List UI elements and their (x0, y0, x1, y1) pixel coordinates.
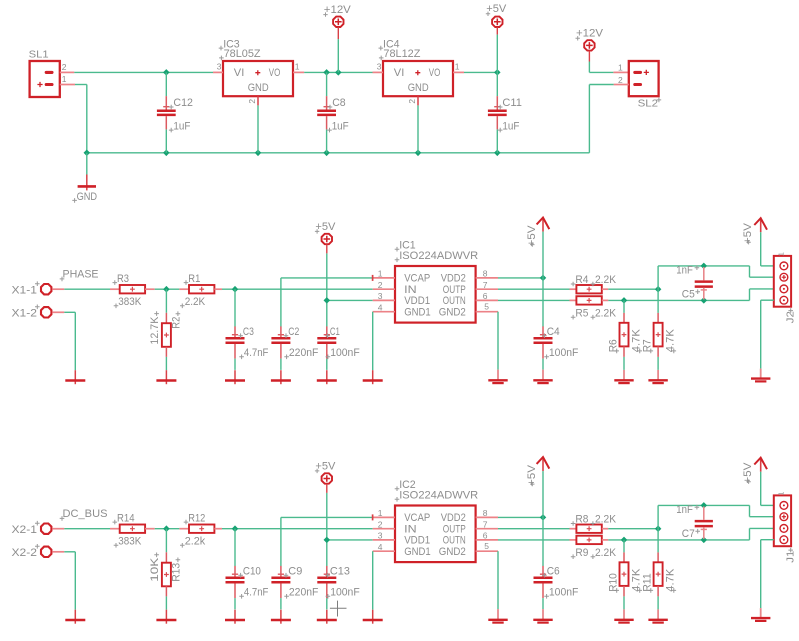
svg-text:78L05Z: 78L05Z (224, 48, 261, 60)
svg-text:VDD1: VDD1 (404, 535, 430, 547)
junction (701, 502, 708, 509)
svg-text:R1: R1 (188, 273, 200, 285)
pin IC3 GND stub (257, 96, 259, 105)
wire input low to gnd (64, 552, 75, 610)
wire divider (165, 289, 167, 313)
capacitor C1 100nF (317, 326, 360, 370)
svg-text:R14: R14 (117, 512, 135, 524)
ground (533, 370, 552, 384)
junction (232, 525, 239, 532)
svg-text:5: 5 (484, 541, 489, 551)
ground (225, 610, 245, 624)
svg-text:5: 5 (484, 301, 489, 311)
junction (335, 69, 342, 76)
net label PHASE (60, 269, 99, 282)
wire OUTP out (608, 288, 658, 290)
svg-text:2: 2 (618, 75, 623, 85)
wire +5V to J pin1 (761, 232, 774, 266)
svg-text:R5: R5 (575, 307, 588, 319)
ground (271, 370, 291, 384)
supply +5V (315, 221, 336, 254)
junction (655, 286, 662, 293)
junction (84, 150, 91, 157)
svg-text:6: 6 (483, 531, 488, 541)
junction (540, 514, 547, 521)
svg-text:R2: R2 (171, 317, 183, 329)
junction (232, 286, 239, 293)
wire GND1 down (372, 312, 374, 371)
wire input (64, 528, 110, 530)
capacitor C2 220nF (271, 326, 318, 370)
svg-text:VI: VI (394, 67, 405, 79)
supply +12V (576, 28, 604, 62)
svg-text:VCAP: VCAP (404, 273, 430, 285)
svg-text:C11: C11 (502, 97, 522, 109)
wire GND2 down (497, 551, 499, 609)
resistor R10 4.7K (607, 552, 642, 596)
ground (363, 370, 383, 384)
resistor R5 2.2K (570, 296, 617, 319)
resistor R6 4.7K (607, 313, 642, 357)
capacitor C10 4.7nF (226, 529, 269, 610)
svg-text:R4: R4 (575, 274, 588, 286)
resistor R4 2.2K (570, 274, 617, 293)
svg-text:R9: R9 (575, 547, 588, 559)
isolation amp IC2 ISO224ADWVR (395, 479, 479, 562)
svg-text:2: 2 (378, 519, 383, 529)
svg-text:1: 1 (295, 62, 300, 72)
pin X1-2 (12, 305, 65, 320)
wire (657, 596, 659, 609)
svg-text:C9: C9 (288, 565, 302, 577)
svg-text:7: 7 (483, 519, 488, 529)
svg-text:ISO224ADWVR: ISO224ADWVR (399, 490, 478, 502)
resistor R7 4.7K (642, 313, 677, 357)
ground (614, 370, 633, 383)
svg-text:R7: R7 (642, 339, 654, 352)
junction (324, 537, 331, 544)
wire OUTN to J (750, 528, 774, 540)
svg-text:R11: R11 (642, 573, 654, 592)
svg-text:GND: GND (408, 82, 429, 94)
svg-text:78L12Z: 78L12Z (383, 48, 420, 60)
resistor R13 10K (149, 552, 183, 596)
junction (163, 286, 170, 293)
svg-text:10K: 10K (149, 557, 161, 582)
svg-text:2.2K: 2.2K (595, 547, 616, 559)
svg-text:C12: C12 (173, 97, 193, 109)
svg-text:R3: R3 (117, 273, 129, 285)
svg-text:8: 8 (483, 508, 488, 518)
svg-text:1: 1 (776, 492, 785, 496)
wire to IN (222, 528, 373, 530)
svg-text:+5V: +5V (526, 465, 538, 486)
ground (225, 370, 245, 384)
svg-text:SL1: SL1 (29, 48, 49, 60)
junction (621, 297, 628, 304)
regulator IC4 78L12Z (377, 38, 460, 103)
svg-text:GND1: GND1 (404, 546, 431, 558)
svg-text:+5V: +5V (486, 3, 506, 15)
svg-text:1uF: 1uF (332, 120, 349, 132)
supply +5V (526, 457, 550, 486)
capacitor C11 (488, 35, 522, 153)
capacitor C7 1nF (676, 504, 713, 540)
resistor R12 2.2k (179, 512, 222, 547)
svg-text:C5: C5 (682, 289, 695, 301)
svg-text:VDD1: VDD1 (404, 295, 430, 307)
svg-text:4.7K: 4.7K (665, 568, 677, 592)
capacitor C12 (157, 72, 193, 152)
ground (751, 369, 770, 382)
supply +5V (315, 460, 336, 493)
pin SL2-2 stub (614, 84, 629, 86)
ground (614, 609, 633, 622)
junction (324, 297, 331, 304)
capacitor C4 100nF (534, 232, 579, 370)
wire IC3 GND to rail (257, 105, 259, 152)
svg-text:C4: C4 (547, 326, 560, 338)
svg-text:C10: C10 (243, 565, 261, 577)
wire (623, 357, 625, 370)
regulator IC3 78L05Z (217, 38, 300, 103)
capacitor C13 100nF (317, 565, 360, 609)
isolation amp IC1 ISO224ADWVR (395, 239, 479, 322)
junction (255, 150, 262, 157)
capacitor C8 (317, 72, 349, 152)
pin 1 VCAP (373, 269, 395, 281)
junction (540, 275, 547, 282)
svg-text:VDD2: VDD2 (441, 273, 466, 285)
svg-text:VCAP: VCAP (404, 512, 430, 524)
wire (155, 288, 180, 290)
svg-text:2: 2 (247, 99, 257, 104)
ground (317, 610, 337, 624)
ground (363, 610, 383, 624)
svg-text:2.2K: 2.2K (595, 514, 616, 526)
svg-text:100nF: 100nF (549, 587, 579, 599)
supply +5V (742, 458, 767, 484)
wire (623, 540, 625, 553)
supply +5V (486, 3, 507, 34)
svg-text:1: 1 (378, 508, 383, 518)
svg-text:2.2k: 2.2k (185, 536, 206, 548)
junction (494, 69, 501, 76)
svg-text:7: 7 (483, 280, 488, 290)
svg-text:2.2K: 2.2K (185, 296, 206, 308)
wire OUTP (498, 528, 570, 530)
wire J pin4 to gnd (761, 540, 774, 608)
wire GND2 down (497, 312, 499, 370)
ground (271, 610, 291, 624)
svg-text:1nF: 1nF (676, 265, 693, 277)
svg-text:C1: C1 (330, 326, 340, 338)
svg-text:C13: C13 (330, 565, 350, 577)
junction (494, 150, 501, 157)
resistor R14 383K (110, 512, 155, 547)
pin 5 GND2 (476, 541, 498, 551)
connector SL1 (29, 48, 67, 97)
pin IC3 VI stub (213, 71, 223, 73)
svg-text:OUTN: OUTN (443, 295, 466, 307)
connector J2 (774, 252, 797, 323)
pin IC4 VO stub (453, 71, 464, 73)
svg-text:R6: R6 (607, 339, 619, 352)
svg-text:1uF: 1uF (502, 120, 519, 132)
svg-text:IN: IN (404, 284, 417, 296)
pin 8 VDD2 (476, 269, 498, 279)
svg-text:X2-2: X2-2 (12, 547, 38, 559)
svg-text:220nF: 220nF (289, 347, 319, 359)
svg-text:GND2: GND2 (439, 306, 466, 318)
svg-text:8: 8 (483, 269, 488, 279)
svg-text:OUTN: OUTN (443, 535, 466, 547)
wire (623, 596, 625, 609)
pin 2 IN (373, 280, 395, 290)
connector J1 (774, 492, 797, 563)
svg-text:C8: C8 (332, 97, 346, 109)
ground (65, 610, 85, 624)
junction (701, 297, 708, 304)
wire SL1-2 to IC3 VI (74, 71, 213, 73)
ground (533, 609, 552, 623)
wire +5V to VDD1 (327, 253, 373, 326)
svg-text:1: 1 (455, 62, 460, 72)
svg-text:383K: 383K (118, 536, 141, 548)
svg-text:4.7K: 4.7K (665, 329, 677, 353)
wire J pin4 to gnd (761, 300, 774, 368)
pin 7 OUTP (476, 280, 498, 290)
svg-text:+5V: +5V (315, 221, 335, 233)
wire IC4 GND to rail (417, 105, 419, 152)
svg-text:DC_BUS: DC_BUS (63, 508, 108, 520)
junction (621, 537, 628, 544)
svg-text:ISO224ADWVR: ISO224ADWVR (399, 250, 478, 262)
svg-text:VO: VO (429, 67, 441, 79)
svg-text:C6: C6 (547, 565, 560, 577)
svg-text:OUTP: OUTP (443, 523, 466, 535)
svg-text:2: 2 (62, 62, 67, 72)
wire (165, 596, 167, 609)
pin 2 IN (373, 519, 395, 529)
wire OUTN out (608, 539, 749, 541)
svg-text:1: 1 (62, 74, 67, 84)
svg-text:GND: GND (77, 191, 98, 203)
wire +12V to SL2-1 (589, 62, 613, 73)
svg-text:6: 6 (483, 291, 488, 301)
ground (488, 609, 507, 623)
pin IC3 VO stub (293, 71, 304, 73)
wire SL1-1 down to gnd rail (75, 85, 87, 153)
ground (65, 370, 85, 384)
svg-text:+12V: +12V (324, 4, 351, 16)
svg-text:3: 3 (217, 62, 222, 72)
svg-text:3: 3 (378, 291, 383, 301)
wire VCAP (281, 278, 373, 327)
svg-text:+5V: +5V (742, 223, 754, 244)
svg-text:VI: VI (234, 67, 245, 79)
junction (323, 69, 330, 76)
wire divider (165, 529, 167, 553)
svg-text:OUTP: OUTP (443, 284, 466, 296)
svg-text:1: 1 (378, 269, 383, 279)
wire OUTN (498, 299, 570, 301)
svg-text:R10: R10 (607, 573, 619, 592)
pin 4 GND1 (373, 542, 395, 552)
junction (655, 525, 662, 532)
resistor R8 2.2K (570, 514, 617, 533)
supply +12V (323, 4, 351, 72)
pin 7 OUTP (476, 519, 498, 529)
wire OUTN (498, 539, 570, 541)
junction (163, 69, 170, 76)
svg-text:4.7nF: 4.7nF (244, 347, 269, 359)
svg-text:12.7K: 12.7K (149, 316, 161, 345)
svg-text:C7: C7 (682, 528, 695, 540)
ground GND (72, 153, 97, 203)
resistor R2 12.7K (149, 311, 183, 357)
svg-text:4: 4 (378, 302, 383, 312)
svg-text:R12: R12 (188, 512, 205, 524)
svg-text:100nF: 100nF (330, 587, 360, 599)
net label DC_BUS (60, 508, 108, 521)
supply +5V (526, 218, 550, 247)
resistor R3 383K (110, 273, 155, 308)
wire (623, 300, 625, 313)
svg-text:1: 1 (776, 252, 785, 256)
svg-text:100nF: 100nF (330, 347, 360, 359)
svg-text:383K: 383K (118, 296, 141, 308)
wire VCAP (281, 517, 373, 566)
connector SL2 (618, 61, 661, 110)
svg-text:C3: C3 (243, 326, 254, 338)
pin SL2-1 stub (613, 71, 628, 73)
pin SL1-2 stub (60, 71, 75, 73)
svg-text:+5V: +5V (315, 460, 335, 472)
pin 4 GND1 (373, 302, 395, 312)
wire to IN (222, 288, 373, 290)
svg-text:2: 2 (407, 99, 417, 104)
svg-text:IN: IN (404, 523, 417, 535)
ground (751, 608, 770, 621)
pin 3 VDD1 (373, 291, 395, 301)
resistor R11 4.7K (642, 552, 677, 596)
wire VDD2 (498, 277, 543, 279)
capacitor C3 4.7nF (226, 289, 269, 370)
svg-text:2.2K: 2.2K (595, 307, 616, 319)
wire (657, 529, 659, 553)
svg-text:SL2: SL2 (638, 98, 659, 110)
capacitor C5 1nF (676, 265, 713, 301)
svg-text:R13: R13 (171, 563, 183, 582)
wire OUTP (498, 288, 570, 290)
pin IC4 VI stub (373, 71, 384, 73)
pin 3 VDD1 (373, 531, 395, 541)
pin 1 VCAP (373, 508, 395, 520)
wire +5V to VDD1 (327, 493, 373, 566)
junction (701, 537, 708, 544)
wire IC3 VO to IC4 VI (304, 71, 372, 73)
cursor crosshair (330, 601, 347, 617)
wire OUTP out (608, 528, 658, 530)
wire +5V to J pin1 (761, 472, 774, 506)
svg-text:+12V: +12V (576, 28, 603, 40)
supply +5V (742, 218, 767, 244)
svg-text:X1-1: X1-1 (12, 284, 38, 296)
svg-text:1uF: 1uF (173, 120, 190, 132)
resistor R9 2.2K (570, 536, 617, 559)
wire SL2-2 to gnd rail (589, 85, 613, 153)
svg-text:X2-1: X2-1 (12, 524, 38, 536)
svg-text:GND1: GND1 (404, 306, 431, 318)
wire GND1 down (372, 551, 374, 610)
svg-text:3: 3 (378, 531, 383, 541)
capacitor C9 220nF (271, 565, 318, 609)
svg-text:100nF: 100nF (549, 347, 579, 359)
svg-text:2: 2 (378, 280, 383, 290)
svg-text:4.7nF: 4.7nF (244, 587, 269, 599)
junction (163, 150, 170, 157)
wire (657, 289, 659, 313)
wire OUTP riser (658, 266, 774, 289)
svg-text:C2: C2 (288, 326, 299, 338)
svg-text:X1-2: X1-2 (12, 307, 38, 319)
ground (156, 610, 176, 624)
pin X1-1 (12, 281, 65, 296)
wire VDD2 (498, 516, 543, 518)
ground (648, 370, 667, 383)
pin IC4 GND stub (417, 96, 419, 105)
svg-text:VO: VO (269, 67, 281, 79)
pin X2-1 (12, 521, 65, 536)
ground (648, 609, 667, 622)
junction (163, 525, 170, 532)
svg-text:3: 3 (377, 62, 382, 72)
resistor R1 2.2K (179, 273, 222, 308)
junction (323, 150, 330, 157)
capacitor C6 100nF (534, 471, 579, 609)
junction (415, 150, 422, 157)
svg-text:R8: R8 (575, 514, 588, 526)
svg-text:PHASE: PHASE (63, 269, 99, 281)
wire input low to gnd (64, 312, 75, 370)
svg-text:+5V: +5V (742, 462, 754, 483)
wire OUTN out (608, 299, 749, 301)
wire (165, 357, 167, 370)
wire OUTP riser (658, 505, 774, 528)
ground (488, 370, 507, 384)
svg-text:VDD2: VDD2 (441, 512, 466, 524)
wire (657, 357, 659, 370)
pin SL1-1 stub (60, 84, 75, 86)
wire OUTN to J (750, 289, 774, 301)
ground (156, 370, 176, 384)
pin 6 OUTN (476, 291, 498, 301)
svg-text:2.2K: 2.2K (595, 274, 616, 286)
wire input (64, 288, 110, 290)
svg-text:GND2: GND2 (439, 546, 466, 558)
pin 8 VDD2 (476, 508, 498, 518)
gnd rail (87, 152, 590, 154)
svg-text:220nF: 220nF (289, 587, 319, 599)
svg-text:+5V: +5V (526, 225, 538, 246)
svg-text:1: 1 (618, 63, 623, 73)
svg-text:4: 4 (378, 542, 383, 552)
svg-text:1nF: 1nF (676, 504, 693, 516)
junction (701, 263, 708, 270)
wire IC4 VO to C11 (464, 71, 497, 73)
ground (317, 370, 337, 384)
